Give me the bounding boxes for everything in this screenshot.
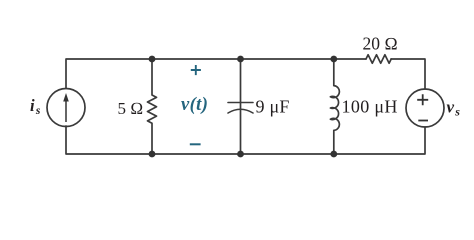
minus sign of v(t) bbox=[190, 143, 201, 145]
wire top-right segment bbox=[391, 59, 425, 89]
svg-text:100 μH: 100 μH bbox=[342, 97, 398, 117]
wire top-left segment bbox=[66, 59, 366, 88]
resistor R 5ohm vertical branch bbox=[148, 59, 157, 154]
junction node dots bbox=[149, 56, 338, 158]
current source arrow bbox=[63, 93, 69, 122]
svg-text:5 Ω: 5 Ω bbox=[118, 99, 144, 118]
capacitor C 9uF branch wire bbox=[240, 59, 242, 154]
capacitor C 9uF plates bbox=[228, 103, 253, 114]
svg-text:is: is bbox=[30, 96, 41, 117]
svg-text:9 μF: 9 μF bbox=[256, 97, 290, 117]
current source Is circle bbox=[47, 89, 85, 127]
resistor R 20ohm horizontal bbox=[366, 55, 391, 63]
wire bottom segment bbox=[66, 126, 425, 154]
svg-text:v(t): v(t) bbox=[181, 95, 208, 115]
plus sign of v(t) bbox=[191, 65, 201, 75]
svg-text:20 Ω: 20 Ω bbox=[363, 34, 398, 54]
svg-text:vs: vs bbox=[447, 98, 461, 119]
voltage source plus sign bbox=[417, 94, 428, 105]
voltage source minus sign bbox=[418, 120, 428, 122]
voltage source Vs circle bbox=[406, 89, 444, 127]
inductor L 100uH bbox=[330, 59, 339, 154]
